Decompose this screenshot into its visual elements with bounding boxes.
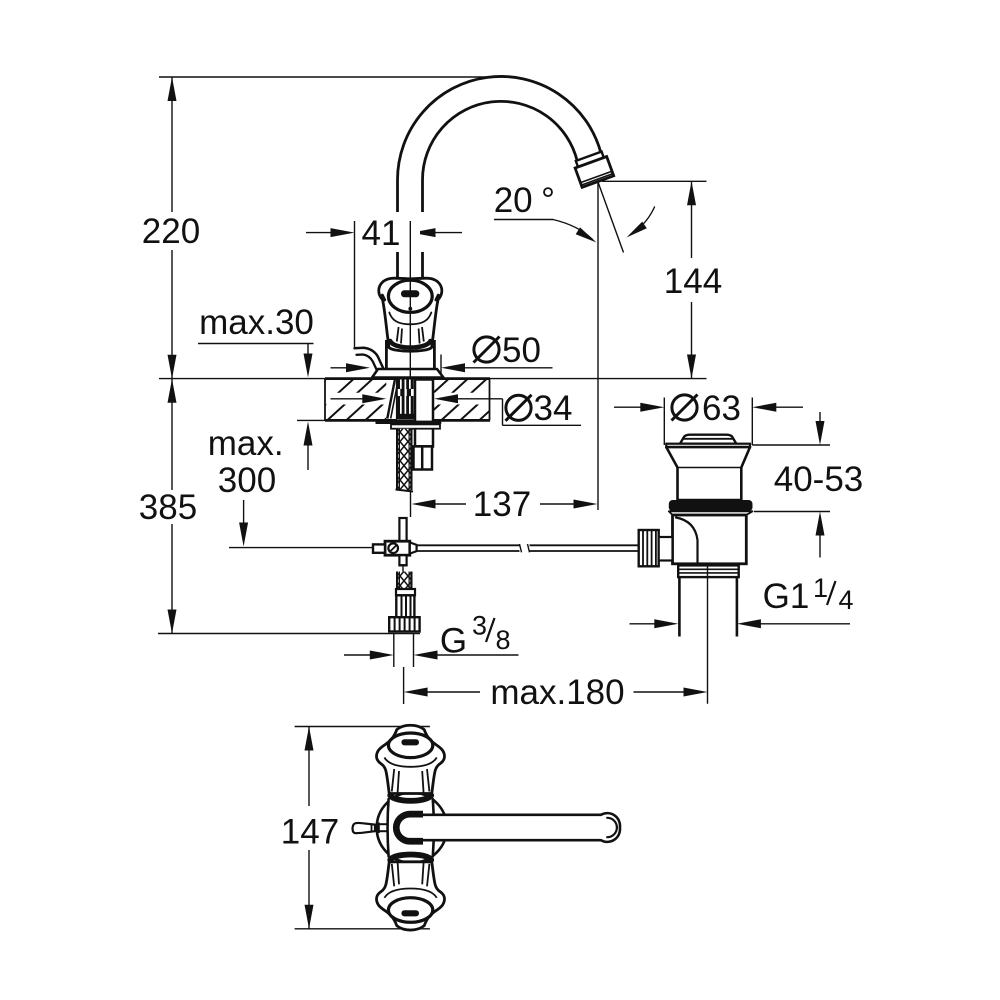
- svg-text:50: 50: [502, 331, 541, 370]
- svg-text:20: 20: [494, 181, 533, 220]
- svg-text:385: 385: [139, 488, 197, 527]
- svg-text:220: 220: [142, 212, 200, 251]
- svg-text:G: G: [440, 622, 467, 661]
- svg-text:41: 41: [362, 214, 401, 253]
- svg-text:137: 137: [473, 485, 531, 524]
- svg-text:1: 1: [813, 573, 828, 603]
- svg-text:300: 300: [218, 461, 276, 500]
- svg-text:34: 34: [534, 389, 573, 428]
- svg-text:°: °: [541, 181, 555, 220]
- svg-text:144: 144: [664, 262, 722, 301]
- svg-text:G1: G1: [763, 577, 810, 616]
- svg-text:4: 4: [838, 585, 853, 615]
- svg-text:max.30: max.30: [199, 303, 314, 342]
- svg-text:3: 3: [472, 611, 487, 641]
- svg-text:63: 63: [702, 389, 741, 428]
- svg-text:max.180: max.180: [490, 673, 624, 712]
- svg-text:max.: max.: [208, 424, 284, 463]
- svg-text:147: 147: [281, 813, 339, 852]
- svg-text:8: 8: [495, 625, 510, 655]
- svg-text:40-53: 40-53: [774, 460, 864, 499]
